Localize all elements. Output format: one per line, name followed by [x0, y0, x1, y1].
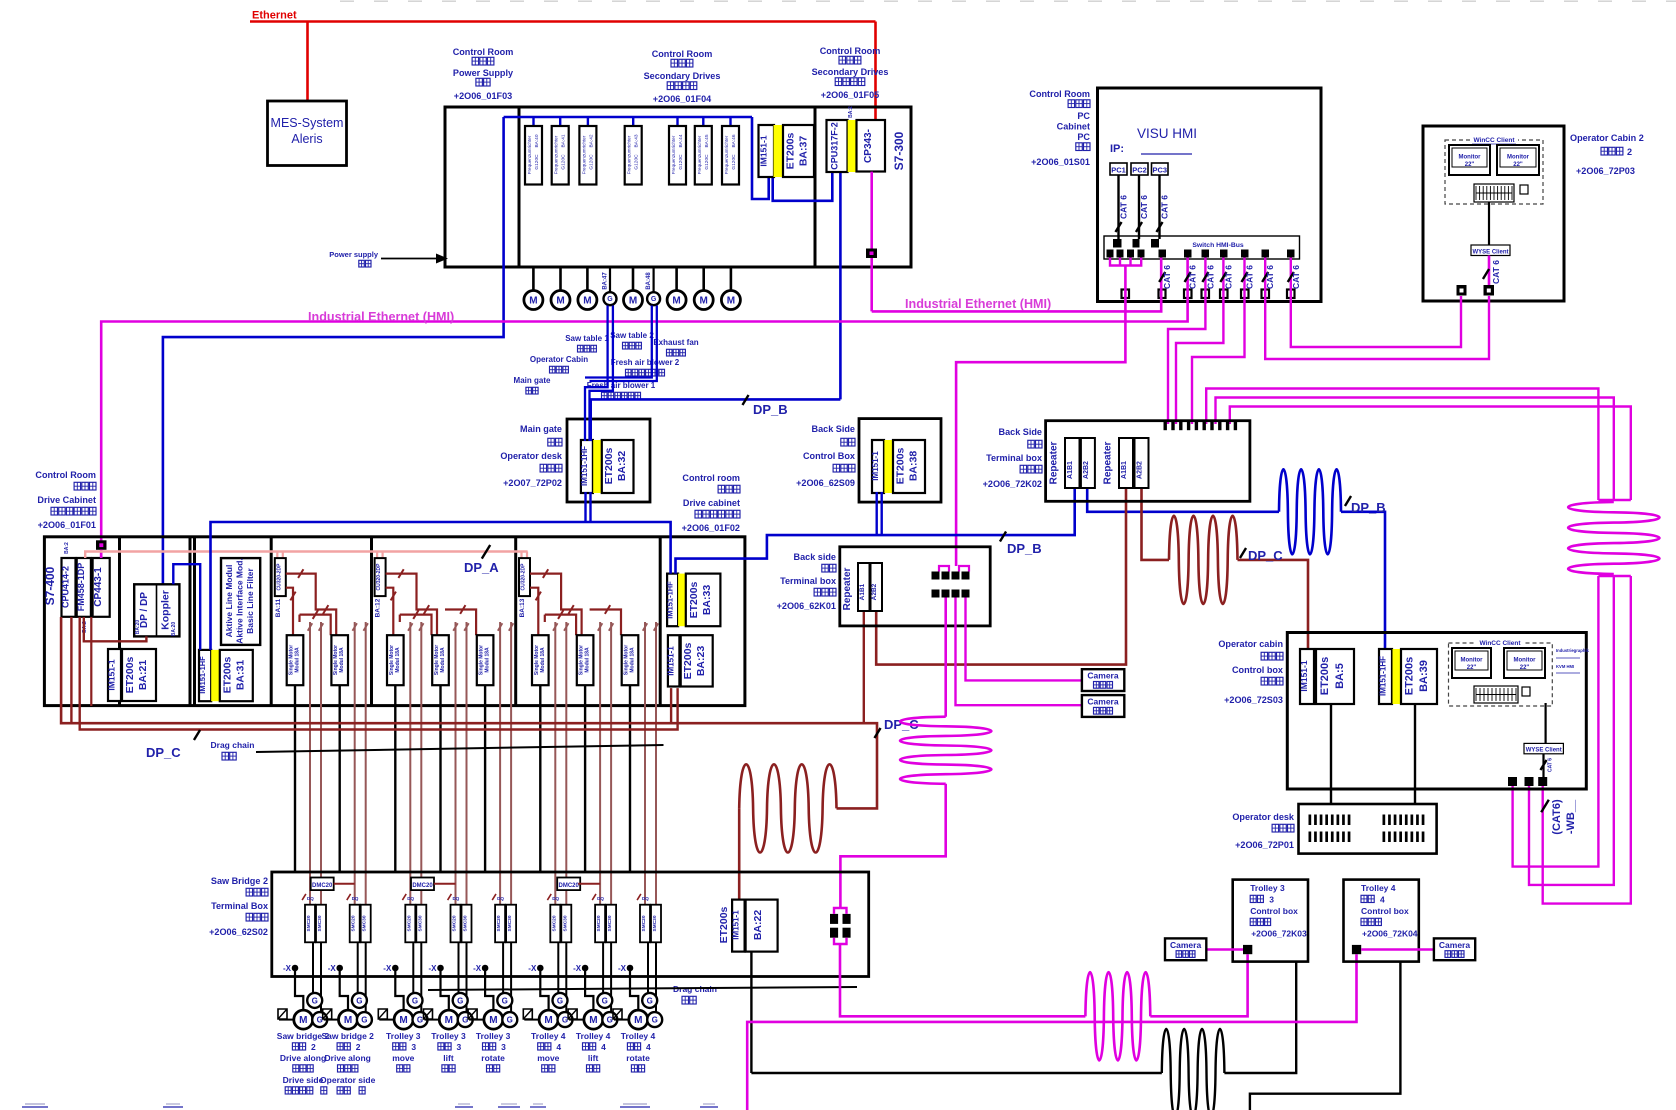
svg-text:Back Side: Back Side [999, 427, 1042, 437]
svg-text:22": 22" [1465, 162, 1475, 168]
svg-text:DP_B: DP_B [1007, 541, 1042, 556]
svg-text:+2O06_01F04: +2O06_01F04 [653, 94, 712, 104]
svg-text:Trolley 4: Trolley 4 [576, 1031, 611, 1041]
svg-text:Exhaust fan: Exhaust fan [653, 338, 698, 347]
svg-text:Modul 18A: Modul 18A [295, 647, 301, 673]
svg-text:BA:46: BA:46 [731, 134, 737, 147]
svg-text:G120C: G120C [678, 154, 684, 170]
svg-text:G120C: G120C [588, 154, 594, 170]
svg-text:DQ: DQ [642, 896, 649, 901]
svg-text:BA:39: BA:39 [1418, 660, 1430, 692]
svg-text:BA:44: BA:44 [678, 134, 684, 147]
svg-text:BA:31: BA:31 [235, 660, 247, 691]
svg-text:A1B1: A1B1 [1067, 461, 1074, 479]
svg-text:A2B2: A2B2 [1137, 461, 1144, 479]
svg-text:4: 4 [601, 1042, 606, 1052]
svg-text:CPU317F-2: CPU317F-2 [830, 122, 840, 170]
svg-text:Industrial Ethernet (HMI): Industrial Ethernet (HMI) [905, 297, 1051, 311]
svg-text:S7-400: S7-400 [43, 566, 57, 605]
svg-text:G: G [361, 1015, 367, 1024]
svg-text:rotate: rotate [626, 1053, 650, 1063]
svg-text:WinCC Client: WinCC Client [1479, 640, 1521, 647]
svg-text:Control Room: Control Room [35, 470, 96, 480]
svg-text:PC1: PC1 [1111, 166, 1126, 175]
svg-text:Aktive Interface Mod.: Aktive Interface Mod. [235, 558, 245, 644]
svg-text:CU320-2DP: CU320-2DP [376, 563, 382, 591]
svg-text:M: M [589, 1015, 597, 1026]
svg-text:-X: -X [383, 964, 392, 973]
svg-text:Trolley 3: Trolley 3 [386, 1031, 421, 1041]
svg-text:DP_B: DP_B [1351, 500, 1386, 515]
svg-text:G120C: G120C [634, 154, 640, 170]
svg-text:Monitor: Monitor [1507, 155, 1530, 161]
svg-text:4: 4 [1380, 895, 1385, 905]
svg-text:CU320-2DP: CU320-2DP [276, 563, 282, 591]
svg-text:Saw table 2: Saw table 2 [610, 331, 654, 340]
svg-text:Aktive Line Modul: Aktive Line Modul [224, 565, 234, 638]
svg-text:M: M [445, 1015, 453, 1026]
svg-text:IM151-1: IM151-1 [667, 646, 676, 676]
svg-text:SMC30: SMC30 [562, 915, 568, 931]
svg-text:CU320-2DP: CU320-2DP [521, 563, 527, 591]
svg-text:Saw table 1: Saw table 1 [565, 334, 609, 343]
svg-text:DQ: DQ [597, 896, 604, 901]
svg-text:+2O06_72P03: +2O06_72P03 [1576, 166, 1635, 176]
svg-text:M: M [634, 1015, 642, 1026]
svg-text:Koppler: Koppler [160, 590, 172, 630]
svg-text:BA:12: BA:12 [375, 598, 382, 617]
svg-text:CAT 6: CAT 6 [1291, 265, 1301, 289]
svg-text:Repeater: Repeater [1049, 442, 1060, 485]
svg-text:G: G [417, 1015, 423, 1024]
svg-text:G: G [412, 996, 418, 1005]
svg-text:SMC20: SMC20 [596, 915, 602, 931]
svg-text:+2O06_72K04: +2O06_72K04 [1362, 929, 1418, 939]
svg-text:2: 2 [311, 1042, 316, 1052]
svg-text:Main gate: Main gate [520, 424, 562, 434]
svg-text:G: G [607, 1015, 613, 1024]
svg-text:IM151-1HF: IM151-1HF [580, 446, 589, 486]
svg-text:Operator desk: Operator desk [1232, 812, 1295, 822]
svg-text:CP443-1: CP443-1 [93, 567, 104, 607]
svg-text:M: M [727, 296, 735, 307]
svg-text:Control Room: Control Room [820, 46, 881, 56]
svg-text:Operator desk: Operator desk [500, 451, 563, 461]
svg-text:G: G [312, 996, 318, 1005]
svg-text:CAT 6: CAT 6 [1162, 265, 1172, 289]
svg-text:BA:20: BA:20 [135, 620, 141, 635]
svg-text:Drag chain: Drag chain [211, 740, 255, 750]
svg-text:M: M [672, 296, 680, 307]
svg-text:Back side: Back side [794, 552, 836, 562]
svg-text:Back Side: Back Side [812, 424, 855, 434]
svg-text:Control Room: Control Room [652, 49, 713, 59]
svg-text:IM151-1: IM151-1 [759, 135, 769, 166]
svg-text:Trolley 3: Trolley 3 [431, 1031, 466, 1041]
svg-text:Monitor: Monitor [1461, 658, 1484, 664]
svg-text:move: move [392, 1053, 414, 1063]
svg-text:Control box: Control box [1361, 906, 1409, 916]
svg-text:SMC20: SMC20 [641, 915, 647, 931]
svg-text:BA:47: BA:47 [603, 272, 609, 290]
svg-text:Modul 18A: Modul 18A [440, 647, 446, 673]
svg-text:DQ: DQ [407, 896, 414, 901]
svg-text:FM458-1DP: FM458-1DP [76, 563, 86, 612]
svg-text:SMC30: SMC30 [652, 915, 658, 931]
svg-text:G: G [457, 996, 463, 1005]
svg-text:SMC30: SMC30 [317, 915, 323, 931]
svg-text:ET200s: ET200s [682, 642, 694, 679]
svg-text:M: M [544, 1015, 552, 1026]
svg-text:-X: -X [528, 964, 537, 973]
svg-text:BA:43: BA:43 [634, 134, 640, 147]
svg-text:M: M [529, 296, 537, 307]
svg-text:3: 3 [501, 1042, 506, 1052]
svg-text:PC: PC [1077, 132, 1090, 142]
svg-text:G120C: G120C [534, 154, 540, 170]
svg-text:CPU414-2: CPU414-2 [61, 566, 71, 608]
svg-text:Industrial Ethernet (HMI): Industrial Ethernet (HMI) [308, 310, 454, 324]
svg-text:ET200s: ET200s [718, 906, 730, 943]
svg-text:Saw Bridge 2: Saw Bridge 2 [211, 876, 268, 886]
svg-text:BA:40: BA:40 [534, 134, 540, 147]
svg-text:Secondary Drives: Secondary Drives [644, 71, 721, 81]
svg-text:G: G [652, 1015, 658, 1024]
svg-text:IM151-1HF: IM151-1HF [666, 581, 675, 619]
svg-text:SMC20: SMC20 [406, 915, 412, 931]
svg-text:Control Room: Control Room [453, 47, 514, 57]
svg-text:Modul 18A: Modul 18A [395, 647, 401, 673]
svg-text:-X: -X [328, 964, 337, 973]
svg-text:BA:21: BA:21 [137, 660, 149, 691]
svg-text:SMC20: SMC20 [496, 915, 502, 931]
svg-text:-X: -X [283, 964, 292, 973]
svg-text:S7-300: S7-300 [892, 131, 906, 170]
svg-text:Frequenzumrichter: Frequenzumrichter [527, 135, 532, 174]
svg-text:BA:37: BA:37 [798, 136, 810, 167]
svg-text:CAT 6: CAT 6 [1119, 195, 1129, 219]
svg-text:Industriegraphik: Industriegraphik [1556, 648, 1589, 653]
svg-text:+2O06_01F01: +2O06_01F01 [38, 520, 96, 530]
svg-text:+2O06_62S02: +2O06_62S02 [209, 927, 268, 937]
svg-text:A2B2: A2B2 [871, 583, 878, 600]
svg-text:BA:48: BA:48 [646, 272, 652, 290]
svg-text:+2O06_72S03: +2O06_72S03 [1224, 695, 1283, 705]
svg-text:ET200s: ET200s [603, 447, 615, 484]
svg-text:BA:23: BA:23 [695, 646, 707, 677]
svg-text:Modul 18A: Modul 18A [485, 647, 491, 673]
svg-text:+2O06_72K02: +2O06_72K02 [983, 479, 1042, 489]
svg-text:Switch HMI-Bus: Switch HMI-Bus [1192, 242, 1244, 249]
svg-text:3: 3 [457, 1042, 462, 1052]
svg-text:BA:13: BA:13 [519, 598, 526, 617]
svg-text:IM151-1HF: IM151-1HF [1379, 656, 1388, 696]
svg-text:+2O07_72P02: +2O07_72P02 [503, 478, 562, 488]
svg-text:DP_C: DP_C [1248, 548, 1283, 563]
svg-text:Repeater: Repeater [842, 568, 853, 611]
svg-text:+2O06_62K01: +2O06_62K01 [777, 601, 836, 611]
svg-text:Main gate: Main gate [514, 376, 551, 385]
svg-text:SMC30: SMC30 [417, 915, 423, 931]
svg-text:G: G [356, 996, 362, 1005]
svg-text:Trolley 4: Trolley 4 [1361, 883, 1396, 893]
svg-text:IM151-1: IM151-1 [1299, 660, 1309, 691]
svg-text:22": 22" [1520, 665, 1530, 671]
svg-text:DQ: DQ [352, 896, 359, 901]
svg-text:Frequenzumrichter: Frequenzumrichter [581, 135, 586, 174]
svg-text:G: G [557, 996, 563, 1005]
svg-text:BA:20: BA:20 [171, 622, 177, 637]
svg-text:Drive along: Drive along [325, 1053, 371, 1063]
svg-text:DQ: DQ [307, 896, 314, 901]
svg-text:-X: -X [473, 964, 482, 973]
svg-text:Power Supply: Power Supply [453, 68, 514, 78]
svg-text:WinCC Client: WinCC Client [1473, 137, 1515, 144]
svg-text:Control room: Control room [682, 473, 740, 483]
svg-text:move: move [537, 1053, 559, 1063]
svg-text:SMC30: SMC30 [607, 915, 613, 931]
svg-text:IM151-1HF: IM151-1HF [198, 656, 207, 694]
svg-text:CAT 6: CAT 6 [1205, 265, 1215, 289]
svg-text:Aleris: Aleris [291, 132, 322, 146]
svg-text:SMC20: SMC20 [351, 915, 357, 931]
svg-text:Frequenzumrichter: Frequenzumrichter [671, 135, 676, 174]
svg-text:M: M [489, 1015, 497, 1026]
svg-text:Secondary Drives: Secondary Drives [812, 67, 889, 77]
svg-text:ET200s: ET200s [222, 656, 234, 693]
svg-text:M: M [299, 1015, 307, 1026]
svg-text:Modul 18A: Modul 18A [540, 647, 546, 673]
svg-text:G: G [317, 1015, 323, 1024]
svg-text:PC2: PC2 [1132, 166, 1147, 175]
svg-text:BA:5: BA:5 [1334, 663, 1346, 689]
svg-text:BA:22: BA:22 [752, 910, 764, 941]
svg-text:lift: lift [443, 1053, 454, 1063]
svg-text:G: G [562, 1015, 568, 1024]
svg-text:CAT 6: CAT 6 [1188, 265, 1198, 289]
svg-text:Modul 18A: Modul 18A [630, 647, 636, 673]
svg-text:M: M [399, 1015, 407, 1026]
svg-text:Modul 18A: Modul 18A [339, 647, 345, 673]
svg-text:CAT 6: CAT 6 [1491, 260, 1501, 284]
svg-text:CAT 6: CAT 6 [1265, 265, 1275, 289]
svg-text:+2O06_01S01: +2O06_01S01 [1031, 157, 1090, 167]
svg-text:Camera: Camera [1170, 940, 1201, 950]
svg-text:G: G [607, 296, 613, 303]
svg-text:G120C: G120C [731, 154, 737, 170]
svg-text:BA:2: BA:2 [64, 542, 70, 554]
svg-text:BA:2: BA:2 [848, 106, 854, 118]
svg-text:G: G [651, 296, 657, 303]
svg-text:DQ: DQ [497, 896, 504, 901]
svg-text:DP_C: DP_C [146, 745, 181, 760]
svg-text:Camera: Camera [1087, 671, 1118, 681]
svg-text:CAT 6: CAT 6 [1223, 265, 1233, 289]
svg-text:IM151-1: IM151-1 [871, 451, 880, 481]
svg-text:22": 22" [1513, 162, 1523, 168]
svg-text:DQ: DQ [453, 896, 460, 901]
svg-text:BA:33: BA:33 [701, 585, 713, 616]
svg-text:Frequenzumrichter: Frequenzumrichter [724, 135, 729, 174]
svg-text:DMC20: DMC20 [559, 883, 580, 889]
svg-text:SMC20: SMC20 [452, 915, 458, 931]
svg-text:SMC30: SMC30 [463, 915, 469, 931]
svg-text:SMC20: SMC20 [551, 915, 557, 931]
svg-text:SMC20: SMC20 [306, 915, 312, 931]
svg-text:BA:45: BA:45 [704, 134, 710, 147]
svg-text:DP_B: DP_B [753, 402, 788, 417]
svg-text:Trolley 4: Trolley 4 [621, 1031, 656, 1041]
svg-text:G: G [502, 996, 508, 1005]
svg-text:BA:41: BA:41 [561, 134, 567, 147]
svg-text:+2O06_01F02: +2O06_01F02 [682, 523, 740, 533]
svg-text:CAT 6: CAT 6 [1548, 758, 1554, 772]
svg-text:IP:: IP: [1110, 143, 1124, 155]
svg-text:Trolley 3: Trolley 3 [1250, 883, 1285, 893]
svg-text:Operator Cabin 2: Operator Cabin 2 [1570, 133, 1644, 143]
svg-text:WYSE Client: WYSE Client [1472, 250, 1508, 256]
svg-text:PC3: PC3 [1152, 166, 1167, 175]
svg-text:CP343-: CP343- [863, 129, 874, 163]
svg-text:ET200s: ET200s [1319, 657, 1331, 696]
svg-text:-WB__: -WB__ [1565, 799, 1577, 834]
svg-text:A2B2: A2B2 [1083, 461, 1090, 479]
svg-text:Terminal box: Terminal box [780, 576, 836, 586]
svg-text:M: M [556, 296, 564, 307]
svg-text:Control Room: Control Room [1029, 89, 1090, 99]
svg-text:DMC20: DMC20 [312, 883, 333, 889]
svg-text:22": 22" [1467, 665, 1477, 671]
svg-text:CAT 6: CAT 6 [1160, 195, 1170, 219]
svg-text:Camera: Camera [1439, 940, 1470, 950]
svg-text:2: 2 [1627, 147, 1632, 157]
svg-text:Frequenzumrichter: Frequenzumrichter [627, 135, 632, 174]
svg-text:ET200s: ET200s [785, 132, 797, 169]
svg-text:Terminal box: Terminal box [986, 453, 1042, 463]
svg-text:A1B1: A1B1 [1121, 461, 1128, 479]
svg-text:ET200s: ET200s [1404, 657, 1416, 696]
svg-text:Drive cabinet: Drive cabinet [683, 498, 740, 508]
svg-text:+2O06_62S09: +2O06_62S09 [796, 478, 855, 488]
svg-text:ET200s: ET200s [895, 447, 907, 484]
svg-text:BA:32: BA:32 [616, 451, 628, 482]
svg-text:CAT 6: CAT 6 [1245, 265, 1255, 289]
svg-text:BA:11: BA:11 [275, 598, 282, 617]
svg-text:BA:38: BA:38 [908, 451, 920, 482]
svg-text:Ethernet: Ethernet [252, 10, 297, 22]
svg-text:Power supply: Power supply [329, 250, 379, 259]
svg-text:G: G [507, 1015, 513, 1024]
svg-text:G120C: G120C [704, 154, 710, 170]
svg-text:Modul 18A: Modul 18A [585, 647, 591, 673]
svg-text:Cabinet: Cabinet [1057, 122, 1090, 132]
svg-text:+2O06_01F05: +2O06_01F05 [821, 90, 879, 100]
svg-text:CAT 6: CAT 6 [1139, 195, 1149, 219]
svg-text:G: G [602, 996, 608, 1005]
svg-text:4: 4 [646, 1042, 651, 1052]
svg-text:Frequenzumrichter: Frequenzumrichter [697, 135, 702, 174]
svg-text:rotate: rotate [481, 1053, 505, 1063]
svg-text:Repeater: Repeater [1103, 442, 1114, 485]
svg-text:M: M [583, 296, 591, 307]
svg-text:Control box: Control box [1232, 665, 1283, 675]
svg-text:Monitor: Monitor [1459, 155, 1482, 161]
svg-text:Basic Line Filter: Basic Line Filter [245, 567, 255, 633]
svg-text:Fresh air blower 2: Fresh air blower 2 [611, 358, 680, 367]
svg-text:+2O06_01F03: +2O06_01F03 [454, 91, 512, 101]
svg-text:DQ: DQ [552, 896, 559, 901]
svg-text:Fresh air blower 1: Fresh air blower 1 [587, 381, 656, 390]
svg-text:M: M [629, 296, 637, 307]
svg-text:Drive Cabinet: Drive Cabinet [37, 495, 96, 505]
svg-text:3: 3 [1269, 895, 1274, 905]
svg-text:Operator Cabin: Operator Cabin [530, 355, 588, 364]
svg-text:lift: lift [588, 1053, 599, 1063]
svg-text:3: 3 [411, 1042, 416, 1052]
svg-text:Saw bridge 2: Saw bridge 2 [321, 1031, 374, 1041]
svg-text:Operator side: Operator side [320, 1075, 376, 1085]
svg-text:G120C: G120C [561, 154, 567, 170]
svg-text:IM151-1: IM151-1 [732, 910, 741, 940]
svg-text:M: M [700, 296, 708, 307]
svg-text:Operator cabin: Operator cabin [1218, 639, 1283, 649]
svg-text:SMC30: SMC30 [507, 915, 513, 931]
svg-text:DP_A: DP_A [464, 560, 499, 575]
svg-text:Monitor: Monitor [1514, 658, 1537, 664]
svg-text:BA:42: BA:42 [588, 134, 594, 147]
svg-text:ET200s: ET200s [124, 656, 136, 693]
svg-text:Frequenzumrichter: Frequenzumrichter [554, 135, 559, 174]
svg-text:Camera: Camera [1087, 697, 1118, 707]
svg-text:A1B1: A1B1 [859, 583, 866, 600]
svg-text:VISU HMI: VISU HMI [1137, 126, 1197, 141]
svg-text:(CAT6): (CAT6) [1551, 799, 1563, 835]
svg-text:G: G [647, 996, 653, 1005]
svg-text:M: M [344, 1015, 352, 1026]
svg-text:ET200s: ET200s [688, 581, 700, 618]
svg-text:IM151-1: IM151-1 [107, 659, 117, 690]
svg-text:PC: PC [1077, 111, 1090, 121]
svg-text:SMC30: SMC30 [362, 915, 368, 931]
svg-text:Drive side: Drive side [283, 1075, 324, 1085]
svg-text:Control Box: Control Box [803, 451, 855, 461]
svg-text:-X: -X [429, 964, 438, 973]
svg-text:Trolley 4: Trolley 4 [531, 1031, 566, 1041]
svg-text:DMC20: DMC20 [412, 883, 433, 889]
svg-text:KVM HMI: KVM HMI [1556, 664, 1574, 669]
svg-text:Terminal Box: Terminal Box [211, 901, 268, 911]
svg-text:2: 2 [356, 1042, 361, 1052]
svg-text:MES-System: MES-System [271, 116, 344, 130]
svg-text:+2O06_72K03: +2O06_72K03 [1251, 929, 1307, 939]
svg-text:4: 4 [556, 1042, 561, 1052]
svg-text:+2O06_72P01: +2O06_72P01 [1235, 840, 1294, 850]
svg-text:-X: -X [618, 964, 627, 973]
svg-text:Drive along: Drive along [280, 1053, 326, 1063]
svg-text:-X: -X [573, 964, 582, 973]
svg-text:WYSE Client: WYSE Client [1526, 748, 1562, 754]
svg-text:Control box: Control box [1250, 906, 1298, 916]
svg-text:Trolley 3: Trolley 3 [476, 1031, 511, 1041]
